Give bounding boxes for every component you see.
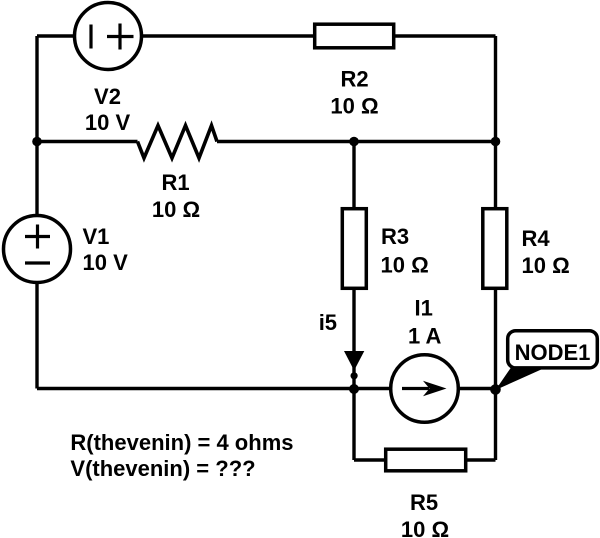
svg-text:V(thevenin) = ???: V(thevenin) = ???: [70, 456, 255, 481]
svg-text:V1: V1: [83, 224, 110, 249]
wire top: node A to top-right corner: [37, 34, 496, 37]
svg-text:V2: V2: [94, 84, 121, 109]
resistor R1 zigzag: [138, 126, 218, 159]
wire middle horizontal left segment: [37, 140, 138, 143]
svg-text:R3: R3: [381, 224, 409, 249]
svg-text:10 V: 10 V: [83, 250, 129, 275]
resistor R3: [342, 209, 366, 289]
svg-text:R1: R1: [161, 170, 189, 195]
wire middle horizontal right segment: [217, 140, 496, 143]
svg-text:10 Ω: 10 Ω: [330, 94, 378, 119]
wire right vertical: [494, 36, 497, 460]
resistor R4: [483, 209, 507, 289]
current source I1: [391, 355, 459, 423]
wire R3 branch vertical: [352, 142, 355, 390]
current arrow i5: [344, 351, 364, 379]
resistor R5: [386, 449, 466, 471]
svg-text:i5: i5: [319, 310, 337, 335]
svg-text:10 Ω: 10 Ω: [522, 253, 570, 278]
junction dot R3 top: [349, 137, 359, 147]
wire R5 loop left vertical: [352, 389, 355, 460]
voltage source V2: [75, 3, 142, 70]
svg-text:R2: R2: [340, 67, 368, 92]
svg-text:NODE1: NODE1: [515, 340, 591, 365]
svg-text:10 Ω: 10 Ω: [152, 197, 200, 222]
resistor R2: [315, 24, 394, 48]
junction dot R4 top: [491, 137, 501, 147]
svg-text:10 V: 10 V: [85, 110, 131, 135]
node NODE1 callout pointer: [496, 366, 550, 390]
svg-text:10 Ω: 10 Ω: [381, 253, 429, 278]
svg-text:R5: R5: [410, 490, 438, 515]
svg-text:1 A: 1 A: [408, 323, 442, 348]
wire left vertical: [35, 36, 38, 389]
wire bottom horizontal: [37, 387, 496, 390]
svg-text:R(thevenin) = 4 ohms: R(thevenin) = 4 ohms: [70, 430, 293, 455]
junction dot node A (left, middle wire): [32, 137, 42, 147]
svg-text:10 Ω: 10 Ω: [401, 517, 449, 538]
wire R5 loop bottom horizontal: [354, 458, 496, 461]
junction dot NODE1: [490, 384, 501, 395]
svg-text:R4: R4: [522, 226, 551, 251]
voltage source V1: [4, 216, 71, 283]
node NODE1 callout bubble: [508, 331, 598, 368]
svg-text:I1: I1: [415, 295, 433, 320]
junction dot R3 bottom: [349, 384, 359, 394]
